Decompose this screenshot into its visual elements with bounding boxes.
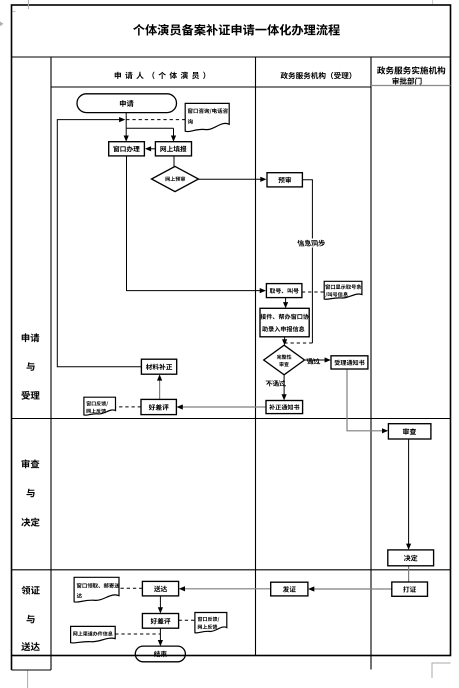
document: 网上渠道办件信息	[71, 626, 116, 643]
dashed wire: junction to 窗口咨询 document	[126, 119, 185, 121]
arrow gray: 好差评 up into 材料补正	[159, 378, 161, 399]
header col2: 受理窗口	[281, 72, 352, 79]
box: 网上填报	[155, 142, 191, 156]
wire: 预审 right, down (信息同步), dashed join	[302, 180, 312, 343]
start pill: 申请	[77, 94, 177, 113]
box: 接件、帮办窗口协助录入申报信息	[260, 308, 309, 337]
arrow: 取号 down into 帮办 box	[285, 298, 287, 305]
section dividers	[12, 418, 451, 420]
header col3: 政务服务实施机构	[377, 66, 445, 74]
box: 打证	[392, 582, 428, 596]
document: 窗口领取、邮寄送达	[74, 577, 119, 602]
wire gray: 决定 down into 打证	[408, 566, 410, 582]
box: 送达	[142, 581, 178, 596]
header bottom rule	[51, 86, 371, 88]
arrow: 网上填报 to 窗口办理	[149, 148, 155, 150]
document: 窗口反馈/网上反馈 2	[195, 613, 227, 633]
sidebar label: 申请 与 受理	[22, 333, 40, 342]
box: 好差评2	[142, 614, 178, 629]
label: 通过	[307, 358, 321, 364]
arrow: 帮办 box down into diamond2	[284, 337, 286, 341]
arrow into 窗口办理	[125, 128, 127, 137]
dashed wire: 送达 to 领取 document	[119, 587, 142, 589]
box: 取号、叫号	[266, 284, 302, 298]
dashed wire: 好差评2 to 反馈 document2	[179, 619, 195, 621]
document: 窗口显示取号条/叫号信息	[324, 281, 362, 299]
arrow: 好差评2 down to 结束	[159, 628, 161, 642]
wire: 窗口办理 down then right into 取号、叫号	[127, 156, 262, 291]
column divider 1	[255, 57, 257, 656]
dashed wire: 取号 to 叫号信息 document	[302, 291, 324, 293]
sidebar divider	[50, 57, 52, 670]
wire: 申请 pill down to branch tee	[125, 113, 127, 129]
box: 好差评	[141, 399, 176, 414]
arrow: diamond2 down 不通过 to 补正通知书	[283, 375, 285, 396]
box: 预审	[267, 173, 302, 187]
column divider 2	[370, 57, 372, 670]
dashed wire: 好差评 to 反馈 document	[116, 406, 142, 408]
box: 补正通知书	[266, 401, 303, 414]
arrow: diamond2 right 通过 to 受理通知书	[305, 359, 327, 361]
end pill: 结束	[135, 646, 185, 662]
arrow gray: 发证 left to 送达	[183, 588, 271, 590]
wire: branch tee horizontal	[126, 127, 173, 129]
label: 信息同步	[296, 239, 328, 248]
arrow gray: 打证 left to 发证	[312, 588, 392, 590]
label: 不通过	[266, 380, 286, 386]
wire: 网上填报 down to diamond 网上预审	[173, 156, 175, 167]
box: 决定	[388, 550, 434, 566]
wire gray: 补正通知书 left into 好差评	[181, 406, 266, 408]
sidebar label: 审查 与 决定	[22, 459, 40, 468]
box: 窗口办理	[109, 142, 145, 156]
box: 发证	[271, 582, 308, 596]
arrow: 送达 down to 好差评2	[159, 596, 161, 610]
title row divider	[12, 56, 451, 58]
wire: resubmit loop from 材料补正 left, up, into junction (arrow)	[57, 120, 141, 367]
sidebar label: 领证 与 送达	[21, 586, 39, 595]
title: 个体演员备案补证申请一体化办理流程	[133, 24, 340, 36]
arrow: 审查 down to 决定	[408, 439, 410, 546]
box: 受理通知书	[331, 356, 368, 369]
box: 审查	[388, 424, 431, 439]
document: 窗口咨询/电话咨询	[185, 103, 229, 131]
box: 材料补正	[141, 359, 176, 374]
arrow into 网上填报	[173, 128, 175, 137]
wire gray: 受理通知书 down, right into 审查	[347, 369, 384, 431]
printer crop marks (gray)	[27, 0, 29, 9]
header col1: 申请人	[115, 72, 206, 80]
arrow: diamond 网上预审 right to 预审 box	[199, 178, 263, 180]
dashed wire: 渠道办件 document to end line	[115, 633, 160, 635]
diamond2: 完整性审查	[264, 345, 305, 375]
diamond: 网上预审	[152, 166, 199, 191]
document: 窗口反馈/网上反馈	[84, 397, 116, 415]
